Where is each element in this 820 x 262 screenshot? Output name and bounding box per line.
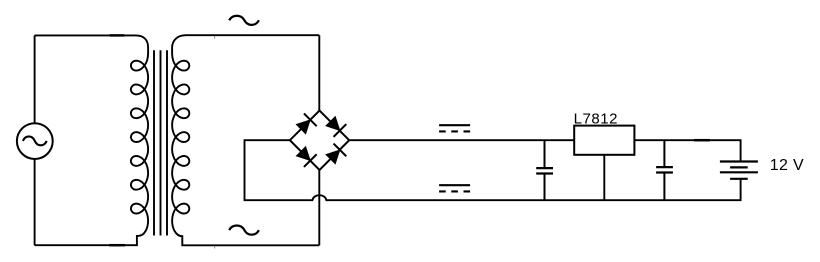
DC label top (solid+dashed) — [439, 125, 470, 131]
wire: primary loop left vertical bottom — [34, 159, 36, 245]
diode D4 (bottom to right) — [324, 143, 347, 166]
transformer T1 primary coil (with top/bottom leads and wires) — [35, 35, 149, 245]
AC label (sine) bottom — [229, 226, 259, 235]
diode D2 (top to right) — [324, 115, 347, 138]
AC label anchor tick bottom — [214, 246, 216, 248]
svg-text:L7812: L7812 — [574, 111, 618, 128]
diode D1 (left to top) — [294, 113, 317, 136]
wire: battery bottom lead — [740, 179, 742, 200]
regulator U1 L7812 box — [574, 126, 634, 155]
wire: bridge bottom vertex down to secondary bottom — [318, 170, 320, 245]
transformer T1 core lines — [154, 50, 167, 235]
wire: primary loop left vertical top — [34, 35, 36, 123]
diode D3 (left to bottom) — [294, 145, 317, 168]
DC label bottom (solid+dashed) — [439, 185, 470, 191]
bridge rectifier diamond — [290, 111, 349, 170]
capacitor C2 — [656, 140, 673, 200]
wire: DC bottom rail with hop over AC wire — [245, 140, 742, 200]
terminal stub primary bottom — [109, 244, 125, 247]
wire: secondary top vertical into bridge — [318, 35, 320, 110]
battery BT1 plates — [720, 162, 758, 179]
transformer T1 secondary coil (with top/bottom leads and wires) — [172, 35, 319, 245]
svg-text:12 V: 12 V — [770, 157, 804, 174]
wire: DC top rail from bridge to regulator — [349, 139, 574, 141]
capacitor C1 — [536, 140, 553, 200]
AC source V1 — [17, 123, 53, 159]
AC label anchor tick top — [214, 36, 216, 38]
terminal stub battery top — [694, 139, 710, 142]
regulator U1 ground pin — [603, 155, 605, 200]
AC label (sine) top — [229, 16, 259, 25]
wire: DC top rail from regulator to battery corner — [634, 140, 740, 161]
terminal stub primary top — [110, 34, 125, 37]
